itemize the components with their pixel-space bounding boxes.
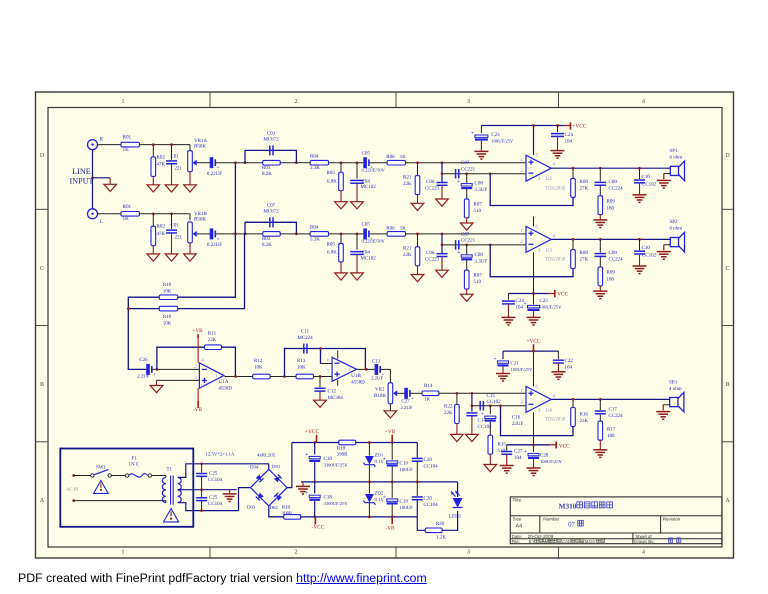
resistor R10' [159, 306, 178, 326]
node fb-c ch [441, 172, 444, 175]
resistor R06 [386, 154, 406, 165]
svg-text:-VB: -VB [386, 525, 395, 531]
sheet background [36, 92, 734, 558]
svg-text:CC104: CC104 [208, 501, 223, 507]
node gnd C18 bot [313, 481, 316, 484]
power supply enclosure box [60, 449, 193, 527]
wire +VCC rail U2 [481, 125, 563, 127]
wire -VCC rail U3 [508, 293, 548, 295]
ground C24' [501, 316, 515, 318]
wire inverting row U3 [442, 244, 526, 246]
resistor R19 [282, 505, 301, 520]
svg-text:+: + [305, 452, 308, 458]
svg-text:LED1: LED1 [449, 514, 462, 520]
node R21 ch [416, 161, 419, 164]
capacitor C05 [362, 151, 386, 173]
wire R14 to U4 [439, 392, 526, 394]
node C16 top [489, 404, 492, 407]
svg-text:C27: C27 [514, 449, 523, 455]
wire C03 loop ch [245, 150, 296, 162]
svg-text:2.2UF: 2.2UF [371, 376, 383, 382]
svg-text:C06: C06 [426, 179, 435, 185]
svg-text:VCC: VCC [557, 292, 568, 298]
ground R21 ch [411, 203, 424, 210]
node ch' a [152, 212, 155, 215]
capacitor C08 U3 [457, 245, 487, 265]
capacitor C27 [400, 388, 414, 411]
capacitor C22 [553, 351, 573, 372]
svg-text:SP1: SP1 [670, 148, 679, 154]
resistor R02' [151, 214, 166, 254]
node tap mid [200, 488, 203, 491]
capacitor C19 [383, 443, 413, 482]
svg-text:C25: C25 [209, 494, 218, 500]
svg-text:R15: R15 [498, 442, 507, 448]
svg-text:C24: C24 [565, 132, 574, 138]
resistor R10 [159, 282, 178, 300]
capacitor C07 input U3 [456, 231, 476, 249]
ground C12 [314, 400, 327, 407]
op-amp U2 [526, 155, 551, 181]
svg-text:CC104: CC104 [424, 502, 439, 508]
node tap top [200, 462, 203, 465]
svg-text:+: + [305, 491, 308, 497]
capacitor C09 U3 [595, 239, 624, 262]
wire +VCC rail U4 [503, 350, 558, 352]
svg-text:2.2UF: 2.2UF [137, 374, 149, 380]
svg-text:R21: R21 [403, 246, 412, 252]
ground C14 [466, 434, 479, 441]
svg-text:6.8K: 6.8K [327, 178, 337, 184]
ground C24 [551, 150, 565, 152]
wire AC bottom lead [74, 500, 166, 502]
wire R10' left [128, 308, 159, 310]
wire sec top tap [178, 464, 269, 478]
svg-text:C17: C17 [609, 406, 618, 412]
svg-text:CC102: CC102 [642, 181, 657, 187]
svg-text:R09: R09 [607, 198, 616, 204]
svg-text:11: 11 [201, 383, 206, 389]
svg-text:C23: C23 [491, 132, 500, 138]
svg-text:12.5V*2=1.1A: 12.5V*2=1.1A [206, 451, 235, 457]
node fb ch [489, 172, 492, 175]
resistor R21 [403, 163, 420, 204]
svg-text:L: L [100, 219, 103, 225]
svg-text:CC102: CC102 [487, 399, 502, 405]
svg-text:C12: C12 [328, 388, 337, 394]
svg-text:A: A [40, 498, 45, 504]
ground R09 U3 [593, 290, 607, 292]
svg-text:VR1A: VR1A [194, 138, 207, 144]
resistor R04 [310, 153, 329, 171]
wire bridge plus [287, 443, 292, 488]
wire input row ch [98, 144, 122, 146]
resistor R07 U2 [464, 189, 482, 223]
svg-text:C15: C15 [487, 393, 496, 399]
power port +VCC (U4) [526, 339, 541, 352]
svg-text:R06: R06 [386, 225, 395, 231]
switch SW1 [91, 465, 112, 478]
node C08 ch [465, 172, 468, 175]
svg-text:MC672: MC672 [263, 137, 279, 143]
resistor R05 [327, 163, 344, 202]
svg-text:+: + [383, 456, 386, 462]
svg-text:4558D: 4558D [351, 379, 365, 385]
svg-text:1.2K: 1.2K [436, 535, 446, 541]
node C09 U3 [599, 238, 602, 241]
svg-text:+VCC: +VCC [305, 429, 320, 435]
svg-text:R22: R22 [444, 404, 453, 410]
svg-text:B: B [725, 382, 729, 388]
svg-text:180: 180 [607, 277, 615, 283]
connector L (RCA input) [88, 209, 103, 225]
svg-text:CC224: CC224 [609, 413, 624, 419]
svg-text:510: 510 [474, 279, 482, 285]
svg-text:R11: R11 [208, 331, 217, 337]
node U2 pin5 rail [532, 124, 535, 127]
svg-text:2.2UF: 2.2UF [400, 405, 412, 411]
svg-text:+VCC: +VCC [572, 124, 587, 130]
node fb-c ch' [441, 244, 444, 247]
capacitor C03 MC672 bridge [263, 131, 279, 156]
svg-text:SP3: SP3 [669, 379, 678, 385]
svg-text:+: + [471, 130, 474, 136]
node R22 [456, 392, 459, 395]
svg-text:C18: C18 [324, 456, 333, 462]
ground R09 U2 [593, 219, 607, 221]
svg-text:R04: R04 [310, 153, 319, 159]
svg-text:4: 4 [642, 99, 645, 105]
potentiometer VR1B [188, 211, 208, 254]
wire bridge AC2 riser [239, 488, 251, 511]
svg-text:390R: 390R [337, 452, 349, 458]
wire R01 to VR1 ch' [140, 213, 191, 215]
wire loop-R03 ch' [245, 233, 263, 235]
power port -VB (U1A) [193, 388, 202, 413]
svg-text:R07: R07 [474, 202, 483, 208]
label qianzi [668, 538, 672, 542]
capacitor C06 [425, 163, 448, 199]
svg-text:6 ohm: 6 ohm [670, 155, 683, 161]
node U1A out fb [234, 375, 237, 378]
svg-text:0.22UE/50V: 0.22UE/50V [362, 239, 386, 244]
svg-text:+: + [217, 237, 220, 242]
wire -VCC rail U4 [507, 444, 550, 446]
svg-text:1K: 1K [123, 147, 130, 153]
wire U1A feedback loop [157, 347, 236, 376]
svg-text:E:\: E:\ [529, 539, 535, 544]
svg-text:3.3UF: 3.3UF [475, 187, 488, 193]
wire sec bot tap [178, 503, 239, 511]
svg-text:M310: M310 [559, 501, 577, 510]
capacitor C05' [362, 222, 386, 244]
svg-text:+: + [524, 301, 527, 307]
svg-text:AC IN: AC IN [66, 486, 79, 491]
svg-text:1: 1 [122, 99, 125, 105]
svg-text:C08: C08 [475, 181, 484, 187]
svg-text:C13: C13 [372, 358, 381, 364]
resistor R01' [121, 204, 140, 222]
capacitor C13 [371, 358, 385, 381]
wire R-ch tap vertical [178, 163, 236, 298]
wire feedback loop U2 [490, 174, 573, 206]
svg-text:R12: R12 [254, 358, 263, 364]
label LINE INPUT [69, 167, 93, 185]
node gnd ZD1 bot [368, 481, 371, 484]
node R21 ch' [416, 233, 419, 236]
svg-text:R04: R04 [310, 225, 319, 231]
svg-text:CC221: CC221 [461, 167, 476, 173]
svg-text:R16: R16 [580, 412, 589, 418]
wire input ground bus [92, 150, 94, 209]
node C18' bot [313, 516, 316, 519]
capacitor C14 [466, 413, 492, 435]
capacitor C26 [137, 357, 156, 380]
ground R15 [484, 465, 497, 472]
svg-text:F1: F1 [132, 455, 138, 461]
svg-text:+VB: +VB [385, 429, 396, 435]
wire LED branch [457, 482, 459, 497]
svg-text:VR2: VR2 [375, 387, 385, 393]
svg-text:R08: R08 [580, 179, 589, 185]
node C19 top [391, 441, 394, 444]
svg-text:R09: R09 [607, 270, 616, 276]
node U1B fb loop [319, 347, 322, 350]
power port +VB [385, 429, 396, 443]
svg-text:CC223: CC223 [425, 257, 440, 263]
resistor R09 U3 [598, 257, 615, 291]
wire C14 branch [471, 393, 473, 411]
svg-text:+: + [457, 179, 460, 185]
resistor R04' [310, 225, 329, 243]
svg-text:221: 221 [175, 165, 183, 171]
svg-text:C11: C11 [301, 329, 310, 335]
resistor R08 U2 [571, 168, 589, 197]
ground rail symbol [302, 482, 304, 486]
svg-text:Number: Number [543, 517, 560, 522]
capacitor C20 [412, 443, 438, 482]
svg-text:D02: D02 [270, 505, 279, 511]
svg-text:B: B [40, 382, 44, 388]
node C08 ch' [465, 244, 468, 247]
wire ground rail [301, 481, 458, 483]
node R16 out [572, 398, 575, 401]
node C24 rail [556, 124, 559, 127]
wire U1B out [357, 368, 375, 370]
svg-text:T1: T1 [167, 467, 173, 473]
svg-text:C09: C09 [609, 179, 618, 185]
zener ZD2 [363, 482, 384, 517]
svg-text:104: 104 [514, 455, 522, 461]
resistor R11 [205, 331, 222, 350]
svg-text:100UF: 100UF [400, 467, 414, 473]
svg-text:100UF: 100UF [400, 505, 414, 511]
node AC bottom [72, 499, 75, 502]
node C18 [313, 441, 316, 444]
svg-text:3.3K: 3.3K [310, 236, 320, 242]
resistor R05' [327, 234, 344, 273]
svg-text:104: 104 [565, 138, 573, 144]
svg-text:22UF: 22UF [512, 421, 524, 427]
node U4 rail [532, 350, 535, 353]
capacitor C01 [166, 145, 183, 185]
resistor R17 [598, 415, 616, 450]
svg-text:10K: 10K [297, 364, 306, 370]
warning triangle 1 [94, 481, 109, 494]
node ZD1 top [368, 441, 371, 444]
wire loop-R03 ch [245, 162, 263, 164]
wire U1B power stubs [337, 350, 339, 358]
svg-text:6.8K: 6.8K [327, 250, 337, 256]
ground R07 U2 [460, 223, 473, 230]
potentiometer VR2 [374, 383, 397, 411]
connector R (RCA input) [88, 136, 104, 149]
wire U4 feedback [501, 406, 574, 436]
svg-text:C20: C20 [424, 496, 433, 502]
capacitor C16 [481, 406, 524, 427]
svg-text:C22: C22 [565, 358, 574, 364]
resistor R02 [151, 145, 166, 185]
ground VR1 ch' [184, 254, 197, 261]
svg-text:VCC: VCC [559, 443, 570, 449]
power port -VCC (U4) [556, 441, 570, 449]
node C12 [319, 375, 322, 378]
svg-text:C01: C01 [171, 223, 180, 229]
node C10 U3 [638, 238, 641, 241]
ground C21 [496, 373, 510, 375]
node tap bot [200, 509, 203, 512]
wire U1A out [225, 376, 253, 378]
resistor R21' [403, 234, 420, 275]
node ZD2 bot [368, 516, 371, 519]
label file path [529, 539, 605, 544]
svg-text:C04: C04 [362, 250, 371, 256]
ground R05 ch [335, 202, 348, 209]
capacitor C25a [196, 464, 223, 490]
svg-text:D04: D04 [250, 465, 259, 471]
svg-text:R: R [100, 136, 104, 142]
svg-text:1K: 1K [424, 397, 431, 403]
power port -VCC [312, 517, 325, 531]
svg-text:U1B: U1B [351, 373, 361, 379]
svg-text:C08: C08 [475, 252, 484, 258]
capacitor C09 U2 [595, 168, 624, 191]
svg-text:+: + [481, 412, 484, 418]
svg-text:C26: C26 [139, 357, 148, 363]
node gnd C19 bot [391, 481, 394, 484]
svg-text:300R: 300R [282, 510, 293, 516]
svg-text:4xRL205: 4xRL205 [257, 453, 276, 459]
svg-text:M310: M310 [585, 539, 596, 544]
svg-text:100UF/25V: 100UF/25V [540, 459, 563, 464]
svg-text:C16: C16 [512, 415, 521, 421]
svg-text:+: + [494, 356, 497, 362]
svg-text:TDA2030: TDA2030 [545, 417, 566, 423]
node ch' b [170, 212, 173, 215]
svg-text:VR1B: VR1B [194, 211, 207, 217]
svg-text:U3: U3 [546, 247, 553, 253]
wire U4 output [551, 398, 670, 400]
wire C02 out ch [216, 162, 245, 164]
wire input row ch' [98, 213, 122, 215]
svg-text:C01: C01 [171, 154, 180, 160]
wire AC top lead [74, 475, 91, 477]
node C09 U2 [599, 167, 602, 170]
wire bridge minus [269, 506, 284, 517]
resistor R15 [488, 422, 506, 465]
svg-text:1K: 1K [123, 216, 130, 222]
svg-text:10K: 10K [163, 320, 172, 326]
node fb ch' [489, 244, 492, 247]
resistor R08 U3 [571, 239, 589, 268]
capacitor C17 [595, 399, 623, 418]
svg-text:U2: U2 [546, 176, 553, 182]
svg-text:+VCC: +VCC [526, 339, 541, 345]
svg-text:C: C [40, 266, 44, 272]
capacitor C07 MC672 bridge [263, 202, 279, 227]
node U1B out fb [365, 368, 368, 371]
svg-text:R01: R01 [123, 204, 132, 210]
resistor R09 U2 [598, 185, 615, 219]
wire U1A plus to gnd [157, 379, 200, 381]
power port -VCC (U3) [555, 290, 569, 298]
svg-text:C05: C05 [362, 222, 371, 228]
svg-text:1N C: 1N C [129, 462, 140, 468]
svg-text:10K: 10K [163, 288, 172, 294]
svg-text:0.22UF: 0.22UF [207, 242, 222, 248]
wire wiper to C02 ch [197, 162, 211, 164]
ground center tap [229, 490, 231, 494]
transformer T1 [162, 467, 181, 505]
resistor R12 [253, 358, 271, 379]
node R05 ch [340, 161, 343, 164]
svg-text:C07: C07 [461, 160, 470, 166]
svg-text:D: D [40, 153, 45, 159]
svg-text:R02: R02 [157, 224, 166, 230]
svg-text:R21: R21 [403, 174, 412, 180]
wire R04-node ch' [329, 233, 363, 235]
wire U1B minus [321, 363, 333, 365]
svg-text:R01: R01 [123, 135, 132, 141]
svg-text:R20: R20 [436, 521, 445, 527]
wire output U3 [551, 238, 670, 240]
wire R03-R04 ch' [296, 233, 309, 235]
svg-text:47K: 47K [157, 231, 166, 237]
svg-text:104: 104 [565, 364, 573, 370]
ground R22 [451, 434, 464, 441]
ground C10 U2 [633, 194, 647, 196]
svg-text:CC104: CC104 [424, 464, 439, 470]
svg-text:C18: C18 [324, 495, 333, 501]
node mix tap ch [234, 161, 237, 164]
speaker SP3 [656, 379, 684, 419]
svg-text:07: 07 [568, 521, 575, 528]
capacitor C24 [551, 126, 573, 151]
svg-text:C07: C07 [267, 202, 276, 208]
capacitor C25' [524, 294, 563, 318]
node AC top [72, 474, 75, 477]
resistor R06' [386, 225, 406, 236]
wire VR2 wiper [397, 392, 404, 394]
svg-text:23K: 23K [580, 418, 589, 424]
wire output U2 [551, 167, 670, 169]
svg-text:R10: R10 [163, 314, 172, 320]
svg-text:R05: R05 [327, 170, 336, 176]
svg-text:3: 3 [467, 99, 470, 105]
power port +VCC (PSU) [305, 429, 320, 443]
node loop start ch [244, 161, 247, 164]
wire R06-opamp ch' [406, 233, 526, 235]
